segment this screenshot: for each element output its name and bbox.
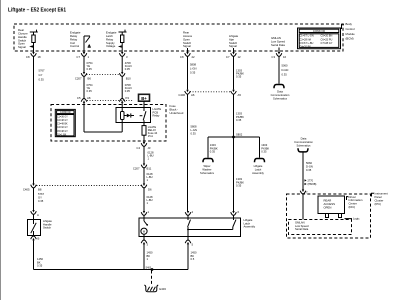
connector C4 pin J3	[136, 142, 150, 150]
latch switch pin4	[187, 218, 190, 237]
wire 0128 L-BU c	[144, 188, 153, 211]
svg-text:0.35: 0.35	[87, 67, 93, 71]
svg-text:0.35: 0.35	[210, 150, 216, 154]
svg-text:C7=28 GY: C7=28 GY	[321, 41, 333, 45]
resistor (endgate latch relay supply voltage)	[106, 30, 127, 52]
BCM dashed box	[14, 24, 343, 51]
splice S403	[146, 266, 154, 271]
svg-text:C7: C7	[76, 55, 80, 59]
svg-text:5808: 5808	[190, 63, 196, 67]
svg-text:0.35: 0.35	[38, 199, 44, 203]
svg-text:D6: D6	[148, 187, 152, 191]
svg-text:0.35: 0.35	[236, 184, 242, 188]
svg-text:P4: P4	[126, 96, 130, 100]
svg-text:Washer: Washer	[202, 167, 211, 171]
GMLAN inner dashed box	[289, 220, 352, 235]
svg-text:Body: Body	[346, 22, 353, 26]
svg-text:L-GN: L-GN	[191, 128, 197, 132]
fuse block underhood dashed box	[51, 105, 166, 142]
connector pin 6	[231, 210, 240, 218]
connector pin 4	[185, 210, 193, 218]
svg-text:Assembly: Assembly	[252, 171, 264, 175]
wire 0128 L-BU a	[144, 146, 154, 163]
svg-text:0.35: 0.35	[282, 72, 288, 76]
svg-text:Switch: Switch	[43, 226, 51, 230]
svg-text:C2=28 NA: C2=28 NA	[299, 37, 311, 41]
svg-text:Signal: Signal	[229, 44, 237, 48]
svg-text:B: B	[38, 237, 40, 241]
node liftgate ajar switch signal	[229, 34, 239, 52]
svg-text:C207: C207	[133, 167, 140, 171]
DIC label	[347, 195, 363, 209]
connector C7 pin 1	[76, 52, 89, 59]
IPC dashed box	[287, 194, 371, 238]
relay contact	[140, 108, 146, 126]
svg-text:0.35: 0.35	[191, 132, 197, 136]
wire 0128 L-BU b	[144, 168, 153, 184]
svg-text:C4=20 BK: C4=20 BK	[299, 45, 311, 49]
svg-text:16: 16	[283, 55, 287, 59]
wire 4708 D-GN upper	[122, 56, 131, 72]
svg-text:C3=67 L-BU: C3=67 L-BU	[299, 41, 313, 45]
resistor R (rear closure handle switch open signal)	[18, 28, 38, 52]
wire coil control return	[84, 103, 122, 132]
svg-text:5060: 5060	[282, 64, 288, 68]
svg-text:L-GN: L-GN	[190, 67, 196, 71]
node rear access open switch signal	[183, 31, 193, 52]
svg-text:Signal: Signal	[18, 45, 26, 49]
svg-text:C3: C3	[271, 55, 275, 59]
svg-text:GMLAN: GMLAN	[295, 220, 305, 224]
liftgate latch assembly box	[139, 218, 256, 237]
svg-text:Serial Data: Serial Data	[271, 43, 285, 47]
connector pin B handle switch	[31, 236, 40, 241]
svg-text:C7: C7	[226, 55, 230, 59]
IPC label	[372, 192, 388, 206]
relay coil	[121, 103, 125, 132]
svg-text:0.35: 0.35	[87, 89, 93, 93]
svg-text:(HB/2B): (HB/2B)	[308, 183, 317, 186]
svg-text:B6: B6	[88, 76, 92, 80]
svg-text:C6=25 PU: C6=25 PU	[321, 37, 333, 41]
connector pin 1	[141, 210, 149, 218]
DIC rear access open box	[318, 196, 345, 218]
svg-text:C1=36 GY: C1=36 GY	[57, 116, 68, 118]
latch switch pin6	[188, 218, 236, 230]
wire 5808 L-GN lower	[188, 94, 197, 211]
connector C406 row	[178, 90, 241, 97]
svg-text:0.35: 0.35	[236, 118, 242, 122]
svg-text:0.35: 0.35	[39, 77, 45, 81]
svg-text:C5=20 BN: C5=20 BN	[321, 34, 333, 38]
relay diode	[124, 113, 134, 117]
wire 1450 BK 1	[144, 244, 153, 269]
wire 4708 D-GN lower	[122, 76, 131, 98]
fuse block CONN ID table	[55, 109, 75, 136]
svg-text:C2=48 GY: C2=48 GY	[57, 120, 68, 122]
svg-text:Wiper: Wiper	[203, 164, 210, 168]
svg-text:GY: GY	[39, 73, 43, 77]
wire 1303 PK/BK upper	[234, 56, 245, 89]
svg-text:5767: 5767	[38, 192, 44, 196]
svg-text:Schematics: Schematics	[273, 97, 288, 101]
svg-text:Communication: Communication	[294, 140, 313, 144]
connector C207 row	[75, 72, 131, 80]
svg-text:C8: C8	[180, 55, 184, 59]
svg-text:A6: A6	[191, 93, 195, 97]
connector IPC pin 7	[300, 190, 308, 195]
svg-text:S802: S802	[236, 132, 243, 136]
fuse LGATE RELAY 15A	[142, 125, 158, 142]
wire 0754 YE lower	[84, 76, 93, 98]
svg-text:J3: J3	[148, 146, 151, 150]
svg-text:Control: Control	[70, 44, 79, 48]
B+ supply	[139, 94, 150, 107]
ground G403	[144, 271, 166, 292]
svg-text:Liftgate – E52 Except E61: Liftgate – E52 Except E61	[8, 7, 67, 13]
connector pin 3	[119, 52, 128, 59]
connector C8 pin 22	[180, 52, 195, 59]
svg-text:C405: C405	[23, 187, 30, 191]
svg-text:A: A	[37, 213, 39, 217]
fuse block label	[170, 104, 184, 115]
connector C8 pin 18	[26, 52, 41, 59]
svg-text:C5: C5	[77, 96, 81, 100]
svg-text:18: 18	[38, 55, 42, 59]
wire 1303 PK/BK mid	[234, 94, 245, 137]
svg-text:Voltage: Voltage	[106, 44, 116, 48]
svg-text:Logic: Logic	[353, 217, 360, 221]
BCM bracket	[342, 24, 345, 29]
connector C3 pin 16	[271, 52, 286, 59]
logic label	[345, 217, 361, 221]
svg-text:M: M	[143, 229, 145, 233]
wire 5767 GY lower	[34, 188, 45, 210]
svg-text:(IPC): (IPC)	[375, 202, 382, 206]
data comm source to IPC	[294, 137, 313, 190]
wire 5767 GY label	[34, 56, 45, 183]
svg-text:0.35: 0.35	[306, 168, 312, 172]
svg-text:D-GN: D-GN	[282, 68, 289, 72]
svg-text:C4: C4	[136, 146, 140, 150]
connector C207 pin B11	[133, 164, 152, 171]
svg-text:GY: GY	[38, 195, 42, 199]
svg-text:0.35: 0.35	[190, 71, 196, 75]
connector pin 5	[185, 237, 193, 247]
svg-text:0.35: 0.35	[125, 67, 131, 71]
svg-text:B10: B10	[126, 76, 131, 80]
wire 1450 BK 0.35	[34, 240, 44, 269]
svg-text:C6=1 BK: C6=1 BK	[57, 134, 67, 136]
svg-text:0.35: 0.35	[261, 150, 267, 154]
svg-text:(DIC): (DIC)	[349, 205, 356, 209]
svg-text:C207: C207	[75, 76, 82, 80]
connector pin 3	[141, 237, 148, 247]
liftgate handle switch	[28, 214, 53, 235]
wire 1303 PK/BK lower	[234, 137, 245, 211]
svg-text:C8: C8	[26, 55, 30, 59]
svg-text:12: 12	[238, 55, 242, 59]
svg-text:Schematics: Schematics	[200, 171, 215, 175]
splice S802	[208, 132, 260, 138]
BCM CONN ID table	[298, 28, 341, 49]
svg-text:Serial Data: Serial Data	[295, 227, 309, 231]
svg-text:2770: 2770	[308, 180, 314, 183]
wire GMLAN to data comm	[271, 56, 290, 100]
svg-text:5808: 5808	[191, 125, 197, 129]
fuse block pins C5 A8 / P4	[77, 96, 133, 103]
svg-text:C4=32 GY: C4=32 GY	[57, 127, 68, 129]
svg-text:C406: C406	[178, 93, 185, 97]
wire 1450 BK 0.5	[188, 244, 197, 269]
wire 5808 L-GN run	[188, 56, 197, 89]
svg-text:Assembly: Assembly	[244, 225, 256, 229]
svg-text:0.35: 0.35	[125, 89, 131, 93]
latch motor branch	[141, 218, 148, 237]
svg-text:Data: Data	[277, 90, 283, 94]
svg-text:5767: 5767	[39, 69, 45, 73]
svg-text:Latch: Latch	[255, 167, 262, 171]
svg-text:A8: A8	[87, 96, 91, 100]
svg-text:CONN ID: CONN ID	[313, 29, 325, 33]
svg-text:Underhood: Underhood	[170, 111, 184, 115]
svg-text:Control: Control	[346, 27, 355, 31]
svg-text:15 A: 15 A	[148, 134, 153, 138]
svg-text:A5: A5	[238, 93, 242, 97]
svg-text:CONN ID: CONN ID	[60, 111, 71, 114]
branch wire to wiper washer schematics	[200, 137, 218, 175]
svg-text:Data: Data	[301, 137, 307, 141]
svg-text:OPEN: OPEN	[324, 205, 332, 209]
page left edge artifact	[0, 0, 2, 300]
svg-text:Liftgate: Liftgate	[254, 164, 263, 168]
svg-text:Communication: Communication	[271, 93, 290, 97]
svg-text:0.35: 0.35	[37, 264, 43, 268]
connector pin A handle switch	[31, 210, 39, 217]
wire 0754 YE upper	[84, 56, 93, 72]
svg-text:C5=48 GY: C5=48 GY	[57, 131, 68, 133]
svg-text:B11: B11	[147, 167, 152, 171]
svg-text:Signal: Signal	[183, 44, 191, 48]
node GMLAN serial data	[271, 36, 285, 52]
svg-text:G403: G403	[159, 287, 166, 291]
svg-text:0.35: 0.35	[236, 74, 242, 78]
svg-text:D-GN: D-GN	[306, 165, 313, 169]
svg-text:Low Speed: Low Speed	[295, 224, 309, 228]
svg-text:Schematics: Schematics	[297, 144, 312, 148]
svg-text:(BCM): (BCM)	[346, 37, 354, 41]
svg-text:Module: Module	[346, 32, 356, 36]
LGATE PCB relay box	[116, 107, 161, 123]
svg-text:22: 22	[192, 55, 196, 59]
svg-text:B8: B8	[38, 187, 42, 191]
svg-text:C3=48 BK: C3=48 BK	[57, 124, 68, 126]
connector C7 pin 12	[226, 52, 241, 59]
branch wire to liftgate latch assembly offpage	[252, 137, 269, 175]
switch (endgate relay coil control driver)	[70, 31, 91, 52]
connector C405 row	[23, 184, 152, 192]
svg-text:B+: B+	[141, 96, 147, 101]
wire into GMLAN node	[302, 194, 304, 220]
svg-text:Relay: Relay	[153, 114, 161, 118]
svg-text:0.5: 0.5	[191, 257, 195, 261]
svg-text:S403: S403	[146, 266, 152, 269]
ground bus wire	[34, 269, 189, 271]
svg-text:C1=67 L-GN: C1=67 L-GN	[299, 34, 314, 38]
svg-text:5060: 5060	[306, 161, 312, 165]
twisted pair note 2770	[305, 179, 317, 186]
